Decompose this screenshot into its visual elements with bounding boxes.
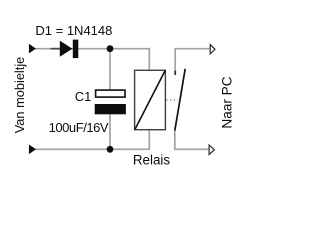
output terminal arrow bottom [209, 145, 214, 154]
diode D1 anode lead [51, 48, 61, 50]
input terminal arrow top [29, 44, 36, 54]
wire capacitor upper lead [109, 49, 111, 90]
svg-text:Van mobieltje: Van mobieltje [12, 57, 27, 134]
svg-text:Relais: Relais [133, 152, 171, 167]
output terminal arrow top [210, 45, 215, 54]
wire switch top lead [175, 49, 210, 75]
svg-text:Naar PC: Naar PC [220, 76, 235, 128]
switch S1 fixed contact tip [174, 71, 176, 75]
diode D1 [60, 40, 79, 59]
svg-text:100uF/16V: 100uF/16V [49, 120, 109, 135]
label D1 = 1N4148 [35, 23, 112, 38]
switch S1 blade [175, 69, 185, 131]
input terminal arrow bottom [29, 145, 36, 155]
relay K1 coil box [135, 70, 166, 129]
junction node top [107, 45, 114, 52]
wire capacitor lower lead [109, 114, 111, 149]
label Relais [133, 152, 171, 167]
dotted actuation link [166, 99, 178, 101]
relay K1 coil diagonal [135, 71, 165, 130]
capacitor C1 positive plate [96, 90, 125, 97]
wire switch bottom lead [175, 131, 209, 150]
junction node bottom [107, 146, 114, 153]
net label Van mobieltje [12, 57, 27, 134]
wire bottom rail [36, 130, 150, 149]
value 100uF/16V [49, 120, 109, 135]
capacitor C1 negative plate [95, 104, 126, 114]
net label Naar PC [220, 76, 235, 128]
wire top rail [36, 49, 150, 71]
svg-text:D1 = 1N4148: D1 = 1N4148 [35, 23, 112, 38]
label C1 [75, 89, 92, 104]
svg-text:C1: C1 [75, 89, 92, 104]
